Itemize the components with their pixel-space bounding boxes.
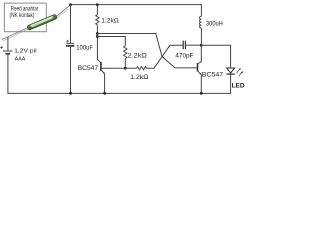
transistor Q1 BC547 [101,62,105,74]
node: collector/coupling junction upper [96,32,99,35]
wire: Q2 base from X crossing [175,67,197,69]
capacitor C1 plus sign [66,40,69,43]
svg-text:1.2kΩ: 1.2kΩ [130,75,149,81]
wire: R1 bottom down to Q1 collector [97,25,100,63]
node: R2/R3/Q1 base junction [124,67,127,70]
wire: C2 right plate to collector node [186,44,201,46]
wire: node to resistor R2 top [97,37,125,46]
node: L1/C2/Q2 collector/LED junction [200,44,203,47]
svg-text:1.2kΩ: 1.2kΩ [101,19,119,25]
svg-text:BC547: BC547 [78,65,99,72]
node: R1 top junction [96,3,99,6]
transistor Q2 BC547 [198,63,202,74]
LED emission arrows [236,68,243,76]
wire: reed switch lower lead to battery [2,27,29,41]
wire: coupling from node to X crossing (to Q2 base) [97,34,175,68]
resistor R1 1.2k (vertical) [96,15,99,25]
svg-text:300uH: 300uH [206,21,223,28]
battery plus sign [0,46,3,49]
node: reed/cap junction [69,3,72,6]
battery B1 wire from reed lead down [7,37,9,50]
wire: reed switch upper lead to top rail node [56,5,71,19]
svg-text:BC547: BC547 [202,72,224,79]
svg-text:2.2kΩ: 2.2kΩ [128,53,148,59]
node: Q1 emitter ground junction [103,92,106,95]
wire: battery minus down to ground rail [7,55,9,94]
wire: collector node right and down to LED [201,45,230,67]
capacitor C1 100uF [66,43,74,46]
node: Q2 emitter ground junction [200,92,203,95]
top supply rail [71,4,202,6]
svg-text:AAA: AAA [15,57,26,63]
reed switch S1 (photo of glass reed switch) [27,14,58,30]
LED D1 [227,68,235,74]
wire: R3 to X crossing up to capacitor C2 [147,45,183,68]
inductor L1 300uH [200,16,202,28]
node: collector/coupling junction lower [96,35,99,38]
svg-text:470pF: 470pF [175,53,193,60]
svg-text:100uF: 100uF [76,45,93,52]
svg-text:LED: LED [232,82,245,89]
label box for reed switch note [4,3,46,32]
battery B1 1.2V AAA [3,51,13,54]
wire: top rail down to capacitor C1 [70,5,72,43]
wire: Q1 base rail to R3 [102,67,137,69]
node: C1 ground junction [69,92,72,95]
svg-text:Reed anahtar: Reed anahtar [11,7,39,13]
wire: Q1 emitter to ground rail [104,74,106,94]
svg-text:(NK kontak): (NK kontak) [10,13,35,19]
wire: LED cathode to ground rail [230,75,232,94]
resistor R2 2.2k (vertical) [124,46,127,59]
ground rail (bottom) [8,92,231,94]
wire: top rail to resistor R1 [96,5,98,15]
svg-text:1.2V pil: 1.2V pil [14,49,36,55]
wire: L1 bottom to collector node [200,28,202,45]
wire: C1 bottom to ground rail [70,47,72,94]
wire: R2 bottom to base rail [124,59,126,68]
resistor R3 1.2k (horizontal) [137,66,147,70]
wire: top rail corner down to inductor L1 [200,5,202,17]
wire: Q2 emitter to ground rail [200,74,202,94]
wire: collector node down to Q2 [198,45,202,64]
capacitor C2 470pF [183,41,185,50]
